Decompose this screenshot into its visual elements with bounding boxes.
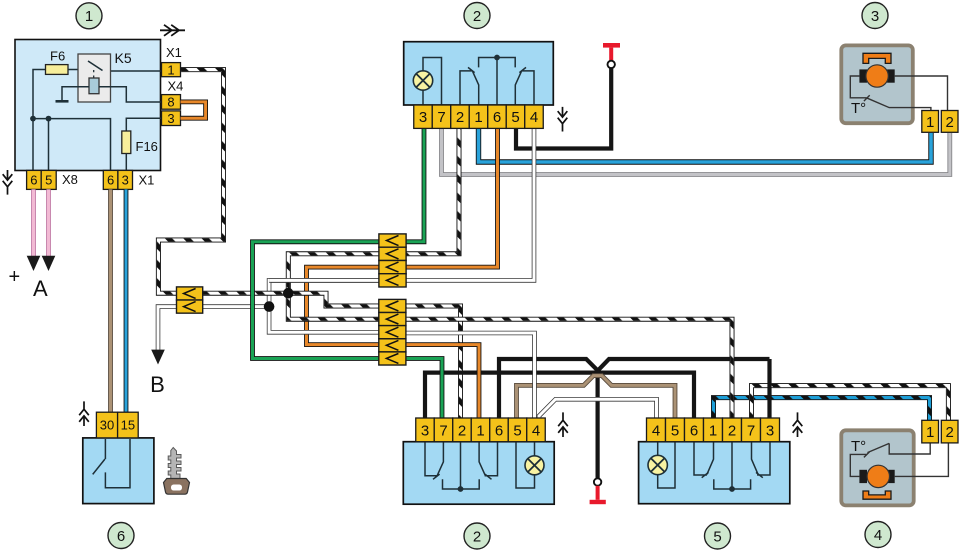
ignition contacts [93,439,130,488]
pin ignition 30 [96,412,117,438]
switch 2b right contact pin6 [485,442,498,480]
switch 2 right blade pin5 [515,71,521,105]
motor 3 brushes [859,69,867,82]
pin ignition 15 [118,412,139,438]
pin X1:1 [162,63,181,77]
svg-text:2: 2 [728,422,736,439]
chassis node T bottom [594,478,601,485]
svg-text:+: + [9,266,21,288]
pin X1:3 bottom [118,170,133,189]
relay K5 link dashes [93,70,95,78]
wire orange jumper X4 pins 8-3 [181,102,206,118]
block5 right blade pin7 [752,442,759,475]
pin X4:3 [162,111,181,126]
node switch2b common [458,486,464,492]
pin switch2 2 [451,105,470,128]
tap node T top [603,43,620,48]
svg-text:8: 8 [167,95,174,110]
svg-text:5: 5 [513,422,521,439]
svg-text:4: 4 [532,422,540,439]
wire internal F6 feed [33,70,111,171]
svg-text:T°: T° [851,438,866,455]
fuse F6 [46,65,69,75]
pin X4:8 [162,95,181,110]
motor 4 brushes [859,470,867,483]
ground symbol right of switch 2b [558,412,568,437]
circle label 2 bottom [464,523,490,549]
wire coil to pin X4:8 [99,87,162,102]
svg-text:F16: F16 [136,139,158,154]
wire hatched junction up to upper joint cell2 [288,254,379,293]
wire pin X4:3 to fuse F16 [126,118,161,131]
svg-text:30: 30 [100,418,114,433]
switch 2b common bar pin2 [443,442,480,489]
wire hatched junction down to lower joint cell2 [288,293,379,319]
pin switch2 7 [432,105,451,128]
motor 3 rotor [866,65,888,87]
svg-text:K5: K5 [115,50,132,66]
wire black switch2b pin3 to relay5 pin6 [425,373,694,418]
node block5 common [729,486,735,492]
svg-text:X1: X1 [139,173,155,188]
switch 2 left contact pin2 [460,67,475,105]
ground symbol left of ignition [79,401,89,426]
circle label 2 top [464,3,490,29]
svg-text:3: 3 [766,422,774,439]
pin block5 6 [685,418,704,442]
svg-text:7: 7 [747,422,755,439]
wire white switch2b pin4 diagonal to relay5 pin4 [539,399,657,418]
svg-text:1: 1 [474,109,482,126]
arrow to other circuits [160,25,185,36]
motor 4 wire to pin2 [895,443,949,476]
svg-text:2: 2 [456,109,464,126]
wire brown X1:6 to ignition 30 [108,189,113,412]
lamp in switch 2 [423,58,442,106]
arrow B [151,350,165,365]
svg-text:6: 6 [493,109,501,126]
svg-text:F6: F6 [50,49,65,64]
svg-text:X1: X1 [166,45,182,60]
ignition switch body [83,438,154,504]
svg-text:6: 6 [107,173,114,188]
ground symbol right of switch 2 [558,107,568,132]
wire orange lower joint cell4 to switch2b pin1 [406,345,479,418]
wire black switch2b pin6 to relay5 pin3 with X cross [499,359,770,418]
pin switch2 6 [488,105,507,128]
svg-text:7: 7 [437,109,445,126]
svg-text:T°: T° [851,100,866,117]
wire F16 to pin X1:3 [125,154,127,171]
motor 3 bracket [863,53,891,63]
switch 2b left blade pin7 [437,442,443,476]
svg-text:2: 2 [458,422,466,439]
pin X8:5 [41,170,56,189]
switch 2 right contact pin4 [519,67,534,105]
svg-text:B: B [150,372,165,397]
svg-text:2: 2 [473,8,481,25]
arrow pink wire 2 [42,256,56,271]
pin switch2b 2 [453,418,472,442]
pin X1:6 bottom [103,170,118,189]
node junction white net [264,301,275,312]
svg-text:3: 3 [167,111,174,126]
svg-text:A: A [33,276,48,301]
wire white overdraw upper joint cell4 branch [269,278,379,283]
svg-text:3: 3 [871,8,879,25]
pin switch2b 4 [527,418,546,442]
wire hatched small joint cell1 to junction to lower joint cell1 [203,293,379,306]
lamp in block 5 [658,442,675,488]
pin switch2 3 [414,105,433,128]
wire blue pin1-switch2 to motor3 pin1 [479,128,932,162]
svg-text:1: 1 [709,422,717,439]
pin block5 4 [647,418,666,442]
ground symbol right of block 5 [793,412,803,437]
relay K5 coil [89,78,99,94]
svg-text:5: 5 [511,109,519,126]
wire white switch2 pin4 down to joint cell4 [406,128,534,280]
pin motor3 2 [941,111,958,133]
svg-text:6: 6 [30,173,37,188]
block5 right contact pin3 [756,442,770,478]
svg-text:5: 5 [45,173,52,188]
pin switch2 4 [525,105,544,128]
node dot block1 b [46,116,52,122]
svg-text:3: 3 [419,109,427,126]
svg-text:3: 3 [421,422,429,439]
wire gray pin7-switch2 to motor3 pin2 [442,128,950,175]
circle label 3 [862,3,888,29]
pin switch2b 5 [508,418,527,442]
wire hatched lower joint cell2 to relay5 pin2 [406,319,732,418]
block5 left blade pin1 [707,442,714,475]
svg-text:1: 1 [476,422,484,439]
motor 4 thermal switch wiring [850,443,930,476]
svg-text:2: 2 [473,528,481,545]
wire hatched relay5 pin7 to motor4 pin2 [752,386,949,421]
wire white small joint cell2 to junction [203,304,269,309]
key symbol [168,448,181,479]
wire brown switch2b pin5 to relay5 pin5 [517,376,676,418]
switch 2b left contact pin3 [425,442,440,480]
wire hatched from block1 X1:1 to small joint cell1 [158,70,223,294]
wire green switch2 pin3 to lower joint cell5 [253,128,425,359]
svg-text:2: 2 [945,424,953,441]
switch 2b right blade pin1 [479,442,485,476]
node dot block1 a [30,116,36,122]
wire black ground drop from X [595,369,599,478]
motor 4 rotor [867,465,889,487]
wire hatched switch2 pin2 down to upper joint cell2 [406,128,459,254]
switch 2 common bar pin6 [479,58,516,106]
fuse F16 [122,131,131,154]
pin switch2b 7 [434,418,453,442]
wire pink X8:6 to battery [31,189,36,256]
connector joint upper stack X [379,234,406,247]
pin switch2b 3 [416,418,435,442]
wire coil to internal ground [62,87,89,101]
circle label 6 [108,523,134,549]
pin motor4 2 [941,420,958,443]
wire blue X1:3 to ignition 15 [124,189,129,412]
pin block5 2 [723,418,742,442]
relay K5 contact blade [88,61,103,71]
lamp in switch 2b [516,442,535,488]
pin switch2b 1 [471,418,490,442]
pin block5 3 [761,418,780,442]
heater switch 2b body [403,442,554,505]
wire blue-striped relay5 pin1 to motor4 pin1 [714,398,930,421]
ground bar inside block1 [56,100,69,103]
svg-text:X8: X8 [62,172,78,187]
heater switch 2 body [404,42,554,105]
svg-text:6: 6 [117,528,125,545]
wire white small joint cell2 to arrow B [158,307,177,350]
pin motor3 1 [922,111,939,133]
svg-text:6: 6 [690,422,698,439]
svg-text:1: 1 [167,62,174,77]
svg-text:15: 15 [121,418,135,433]
motor 3 thermal switch wiring [850,76,931,111]
wire black from switch 2 pin 5 to tap node [516,68,611,149]
svg-text:1: 1 [85,8,93,25]
wire pink X8:5 to battery [46,189,51,256]
wire green lower joint cell5 to switch2b pin7 [406,359,442,419]
svg-text:2: 2 [945,114,953,131]
svg-text:1: 1 [926,114,934,131]
svg-text:X4: X4 [168,79,184,94]
wire white joint net junction B vertical [269,280,379,332]
block5 left contact pin6 [694,442,709,478]
circle label 4 [865,522,891,548]
motor 4 bracket [863,491,891,499]
svg-text:4: 4 [530,109,538,126]
pin switch2 5 [506,105,525,128]
svg-text:3: 3 [122,173,129,188]
wire orange switch2 pin6 via joints to switch2b pin1 [307,128,498,345]
svg-text:4: 4 [874,527,882,544]
heater motor 4 body [841,430,913,505]
node switch2 common [494,55,500,61]
block5 common bar pin2 [714,442,751,489]
motor 3 wire to pin 2 [895,76,948,111]
svg-text:6: 6 [495,422,503,439]
svg-text:1: 1 [926,424,934,441]
pin block5 1 [704,418,723,442]
wire F6 to relay contact to pin X1:1 [68,70,162,72]
relay block 5 body [639,442,790,504]
connector joint small stack [177,287,203,300]
heater motor 3 body [841,45,913,123]
svg-text:5: 5 [671,422,679,439]
svg-text:5: 5 [713,528,721,545]
arrow pink wire 1 [27,256,41,271]
svg-text:7: 7 [439,422,447,439]
wire black tail to relay5 pin3 [767,359,771,418]
pin switch2 1 [469,105,488,128]
relay K5 box [78,54,111,102]
svg-text:4: 4 [652,422,660,439]
pin switch2b 6 [490,418,509,442]
circle label 1 [76,3,102,29]
pin block5 5 [666,418,685,442]
pin block5 7 [742,418,761,442]
node junction hatched net [283,288,294,299]
connector joint lower stack X [379,299,406,312]
pin X8:6 [27,170,42,189]
wire white lower joint cell3 to switch2b pin4 [406,333,535,418]
circle label 5 [705,523,731,549]
pin motor4 1 [922,420,939,443]
ground symbol left of block1 [3,170,13,195]
wire hatched lower joint cell1 to switch2b pin2 [406,306,461,418]
fuse-relay block 1 body [15,40,161,171]
switch 2 left blade pin1 [473,71,479,105]
